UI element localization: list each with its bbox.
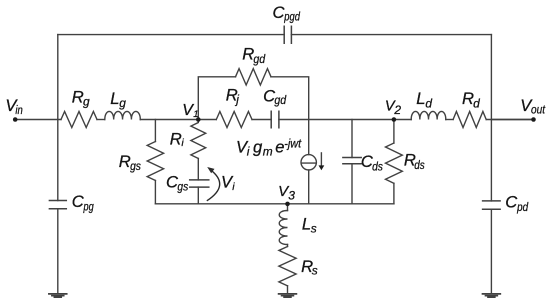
wire bbox=[97, 119, 105, 121]
svg-text:out: out bbox=[531, 102, 546, 116]
svg-text:R: R bbox=[72, 87, 84, 106]
capacitor C_gd bbox=[271, 111, 279, 128]
resistor R_gs bbox=[147, 142, 163, 181]
wire C_ds branch bbox=[351, 120, 353, 158]
wire source to bottom rail bbox=[308, 170, 310, 204]
svg-text:in: in bbox=[15, 103, 23, 117]
svg-text:L: L bbox=[110, 89, 119, 108]
svg-text:i: i bbox=[247, 145, 250, 159]
wire bbox=[446, 119, 453, 121]
wire R_ds branch bbox=[393, 120, 395, 144]
svg-text:m: m bbox=[263, 145, 273, 159]
inductor L_d bbox=[411, 111, 446, 119]
svg-text:gd: gd bbox=[253, 52, 265, 66]
wire R_gd branch right bbox=[271, 77, 309, 155]
resistor R_ds bbox=[386, 143, 403, 183]
resistor R_gd bbox=[236, 69, 272, 85]
wire right rail bbox=[490, 35, 492, 294]
svg-text:2: 2 bbox=[393, 103, 401, 117]
svg-text:gd: gd bbox=[274, 93, 286, 107]
svg-text:R: R bbox=[119, 152, 131, 171]
arrow current direction bbox=[320, 153, 322, 166]
resistor R_s bbox=[279, 247, 296, 286]
inductor L_s bbox=[279, 211, 287, 245]
svg-text:s: s bbox=[311, 221, 317, 235]
svg-text:L: L bbox=[416, 89, 425, 108]
wire R_gs branch bbox=[154, 120, 156, 142]
capacitor C_gs bbox=[190, 180, 209, 187]
svg-text:pg: pg bbox=[83, 199, 94, 213]
resistor R_d bbox=[453, 112, 486, 128]
svg-text:g: g bbox=[253, 138, 263, 157]
svg-text:1: 1 bbox=[193, 109, 198, 120]
node V_2 dot bbox=[392, 117, 397, 122]
svg-text:g: g bbox=[119, 96, 126, 110]
node V_out dot bbox=[531, 117, 536, 122]
resistor R_g bbox=[61, 112, 97, 128]
wire R_d to V_out bbox=[486, 119, 533, 121]
wire bbox=[393, 183, 395, 204]
resistor R_i bbox=[191, 120, 206, 159]
node V_3 dot bbox=[285, 202, 290, 207]
wire V_out stub bbox=[491, 119, 533, 121]
arrow V_i arc bbox=[207, 169, 220, 201]
svg-text:e: e bbox=[275, 138, 284, 157]
wire bbox=[287, 286, 289, 293]
svg-text:d: d bbox=[425, 96, 432, 110]
arrow head current source bbox=[319, 165, 325, 170]
svg-text:-jwt: -jwt bbox=[284, 138, 302, 150]
svg-text:ds: ds bbox=[414, 158, 424, 172]
svg-text:i: i bbox=[181, 137, 184, 149]
wire left rail bbox=[57, 35, 59, 294]
capacitor C_ds bbox=[343, 158, 361, 164]
resistor R_j bbox=[216, 112, 252, 128]
wire bbox=[351, 164, 353, 204]
arrow head V_i arc bbox=[207, 167, 214, 173]
wire bbox=[197, 159, 199, 180]
wire V_in to R_g bbox=[15, 119, 61, 121]
wire bbox=[197, 187, 199, 204]
inductor L_g bbox=[105, 111, 141, 119]
wire top rail bbox=[58, 34, 492, 36]
capacitor C_pgd bbox=[284, 26, 291, 43]
node V_1 dot bbox=[196, 117, 201, 122]
wire bottom rail bbox=[155, 203, 394, 205]
svg-text:i: i bbox=[232, 181, 235, 193]
ground middle bbox=[279, 294, 297, 297]
capacitor C_pg bbox=[49, 201, 66, 209]
svg-text:3: 3 bbox=[288, 189, 295, 203]
wire bbox=[154, 181, 156, 204]
wire L_g to V_1 to R_j bbox=[140, 119, 216, 121]
svg-text:g: g bbox=[83, 95, 90, 109]
svg-text:gs: gs bbox=[177, 180, 188, 194]
svg-text:ds: ds bbox=[372, 159, 383, 173]
wire V_3 down bbox=[287, 204, 289, 211]
svg-text:s: s bbox=[312, 264, 318, 278]
wire R_gd branch left bbox=[198, 77, 235, 120]
wire bbox=[287, 245, 289, 247]
svg-text:d: d bbox=[473, 97, 480, 111]
ground right bbox=[483, 294, 501, 297]
svg-text:R: R bbox=[170, 129, 182, 148]
svg-text:pgd: pgd bbox=[284, 9, 301, 23]
wire C_gd to V_2 to L_d bbox=[279, 119, 411, 121]
current source U1 bbox=[301, 155, 316, 170]
capacitor C_pd bbox=[483, 201, 501, 209]
svg-text:gs: gs bbox=[130, 159, 141, 173]
node V_in dot bbox=[13, 117, 18, 122]
svg-text:pd: pd bbox=[516, 200, 528, 214]
ground left bbox=[49, 294, 67, 297]
wire bbox=[252, 119, 271, 121]
